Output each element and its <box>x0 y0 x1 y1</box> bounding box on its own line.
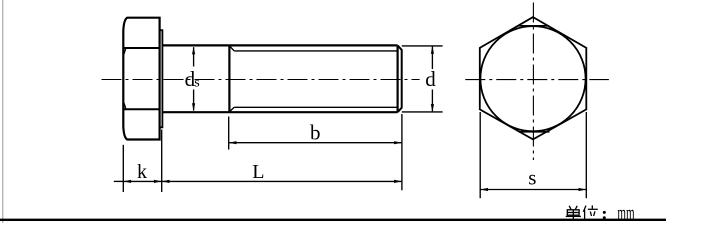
dimension b extension line left <box>228 117 230 150</box>
dimension k tail dash <box>114 180 124 182</box>
bottom corner chamfer line <box>519 131 550 133</box>
shank bottom outline <box>162 111 397 113</box>
dimension s extension line left <box>479 112 481 198</box>
head facet line lower <box>123 108 159 110</box>
dimension b line <box>229 142 402 144</box>
inscribed chamfer circle <box>480 26 585 131</box>
dimension L arrow left <box>162 180 170 183</box>
dimension L extension line right <box>401 114 403 190</box>
head end view horizontal center line <box>465 79 609 81</box>
thread runout chamfer top <box>230 46 235 51</box>
head chamfer arc upper <box>124 49 126 56</box>
hexagon outline (end view) <box>480 17 587 139</box>
dimension d extension line top <box>402 45 443 47</box>
dimension ds line <box>193 47 195 110</box>
dimension k arrow right <box>154 180 162 183</box>
dimension k extension line right <box>161 130 163 193</box>
left page border <box>2 0 4 223</box>
dimension b arrow left <box>229 141 237 144</box>
svg-text:d: d <box>425 67 436 91</box>
svg-text:s: s <box>528 165 536 189</box>
dimension k extension line left <box>122 145 124 192</box>
dimension s line <box>480 189 586 191</box>
svg-text:s: s <box>194 76 199 91</box>
hex head outline (side view) <box>123 18 159 140</box>
dimension ds arrow up <box>192 47 195 55</box>
dimension d line <box>431 47 433 112</box>
svg-text:k: k <box>137 161 147 183</box>
dimension s arrow right <box>579 188 587 191</box>
dimension L line <box>162 180 402 182</box>
dimension s arrow left <box>480 188 488 191</box>
svg-text:L: L <box>252 161 264 183</box>
dimension ds arrow down <box>192 103 195 111</box>
thread minor diameter top line <box>234 50 397 52</box>
shank top outline <box>162 44 397 46</box>
washer face under head <box>160 30 163 127</box>
head facet line upper <box>123 47 159 49</box>
dimension s extension line right <box>585 112 587 198</box>
svg-text:mm: mm <box>617 201 634 223</box>
top corner chamfer line <box>518 25 549 27</box>
bolt end face with chamfers <box>398 46 402 113</box>
head end view vertical center line <box>532 3 534 161</box>
svg-text:b: b <box>310 120 321 144</box>
bottom border line <box>0 219 666 221</box>
dimension d extension line bottom <box>402 111 443 113</box>
dimension d arrow down <box>431 104 434 112</box>
dimension d arrow up <box>431 46 434 54</box>
dimension L arrow right <box>394 180 402 183</box>
thread start line <box>228 45 230 112</box>
unit note fullwidth colon <box>603 211 606 214</box>
thread runout chamfer bottom <box>230 107 235 111</box>
dimension k arrow left <box>123 180 131 183</box>
head chamfer arc lower <box>124 102 126 109</box>
thread minor diameter bottom line <box>234 106 397 108</box>
unit note character dan <box>566 206 581 221</box>
dimension k line <box>123 180 161 182</box>
dimension b arrow right <box>394 141 402 144</box>
bolt end chamfer line <box>397 45 399 112</box>
bolt axis center line <box>102 79 420 81</box>
unit note character wei <box>583 205 598 220</box>
